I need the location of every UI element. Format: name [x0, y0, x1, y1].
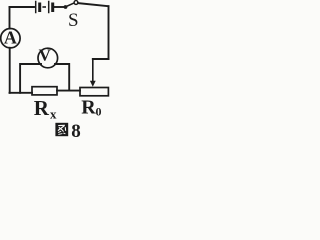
svg-text:8: 8: [71, 121, 81, 139]
svg-text:0: 0: [96, 105, 102, 119]
svg-text:A: A: [4, 28, 17, 48]
svg-text:x: x: [50, 106, 57, 121]
svg-text:R: R: [81, 97, 96, 119]
svg-text:V: V: [39, 45, 52, 64]
svg-text:R: R: [34, 96, 50, 120]
svg-text:S: S: [68, 10, 79, 31]
